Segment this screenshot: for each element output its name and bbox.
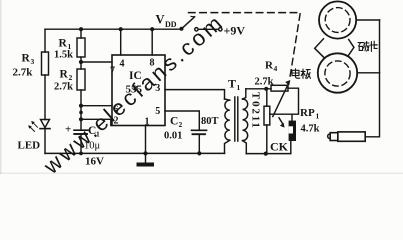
ground bbox=[137, 163, 155, 167]
RP1 wiper arrow bbox=[273, 84, 289, 117]
svg-text:LED: LED bbox=[18, 140, 41, 152]
wire pin 8 bbox=[151, 29, 153, 55]
node A R4 input bbox=[264, 87, 268, 91]
svg-text:RP: RP bbox=[300, 107, 315, 119]
socket CK bbox=[289, 121, 296, 141]
scan artifact left edge bbox=[0, 0, 2, 174]
wire top supply rail bbox=[45, 28, 182, 30]
svg-text:0.01: 0.01 bbox=[164, 131, 182, 142]
svg-text:R: R bbox=[60, 69, 69, 81]
magnetic disc upper bbox=[319, 1, 356, 38]
switch S lever bbox=[182, 17, 195, 29]
label cipian disc char pian bbox=[370, 41, 377, 51]
resistor R3 bbox=[42, 52, 49, 75]
svg-text:80T: 80T bbox=[201, 116, 219, 127]
resistor R2 bbox=[77, 69, 85, 90]
potentiometer RP1 bbox=[264, 106, 270, 125]
label cipian disc char ci bbox=[358, 42, 369, 51]
node pin2 bbox=[79, 117, 83, 121]
magnetic disc lower bbox=[318, 53, 357, 92]
svg-text:5: 5 bbox=[155, 106, 160, 117]
svg-text:4: 4 bbox=[274, 64, 278, 73]
svg-text:1: 1 bbox=[316, 112, 320, 121]
svg-text:R: R bbox=[22, 53, 31, 65]
resistor R1 bbox=[77, 38, 85, 57]
node pin8 top bbox=[150, 27, 154, 31]
svg-text:2.7k: 2.7k bbox=[255, 77, 274, 88]
wire LED to bottom rail bbox=[44, 129, 46, 154]
svg-text:2: 2 bbox=[179, 120, 183, 129]
transformer T1 primary winding 80T bbox=[225, 99, 230, 100]
disc holder right bracket bbox=[348, 40, 354, 57]
disc holder left bracket bbox=[315, 39, 325, 58]
wire switch to battery terminal bbox=[198, 28, 218, 30]
wire C2 to rail bbox=[198, 134, 200, 153]
svg-text:2.7k: 2.7k bbox=[13, 67, 34, 79]
svg-text:2.7k: 2.7k bbox=[54, 82, 73, 93]
wire pin 3 bbox=[165, 90, 225, 99]
svg-text:DD: DD bbox=[165, 20, 177, 29]
node C2 rail bbox=[197, 151, 201, 155]
wire disc lower stub bbox=[357, 72, 379, 74]
svg-text:T0211: T0211 bbox=[250, 92, 262, 130]
node RP1 bottom rail bbox=[264, 152, 268, 156]
svg-text:4: 4 bbox=[120, 59, 125, 70]
svg-text:7: 7 bbox=[110, 66, 115, 77]
phone plug tip bbox=[328, 134, 331, 139]
wire pin 5 bbox=[165, 111, 199, 130]
wire pin 2 bbox=[81, 119, 111, 125]
svg-text:4.7k: 4.7k bbox=[301, 124, 320, 135]
svg-text:3: 3 bbox=[31, 57, 35, 66]
LED bbox=[41, 120, 50, 128]
wire C1 to rail bbox=[80, 134, 82, 153]
svg-text:R: R bbox=[59, 38, 68, 50]
scan artifact bottom edge bbox=[0, 173, 403, 174]
capacitor C2 bbox=[192, 129, 207, 131]
wire right vertical to plug bbox=[365, 20, 379, 137]
wire RP1 top lead bbox=[266, 89, 268, 106]
battery terminal bbox=[219, 28, 222, 31]
node pin4 top bbox=[119, 27, 123, 31]
wire secondary bottom rail bbox=[246, 141, 290, 154]
wire R1-R2 junction bbox=[80, 57, 82, 69]
svg-text:V: V bbox=[156, 13, 165, 27]
svg-text:C: C bbox=[170, 116, 178, 128]
svg-text:1.5k: 1.5k bbox=[54, 50, 73, 61]
label dianji electrode char dian bbox=[292, 69, 300, 78]
svg-text:1: 1 bbox=[237, 83, 241, 92]
wire pin 1 to ground bbox=[145, 126, 147, 163]
node R1-R2 bbox=[79, 60, 83, 64]
wire R2 to C1 bbox=[80, 90, 82, 130]
svg-text:16V: 16V bbox=[85, 156, 104, 168]
capacitor C1 bbox=[74, 129, 88, 131]
switch contact bbox=[195, 28, 198, 31]
switch dashed mechanical link bbox=[189, 13, 301, 80]
wire R1 branch from rail bbox=[80, 29, 82, 38]
wire R3 to LED bbox=[44, 75, 46, 120]
node VDD bbox=[180, 27, 184, 31]
phone plug collar bbox=[330, 133, 338, 141]
wire pin 7 bbox=[81, 61, 112, 63]
svg-text:CK: CK bbox=[270, 140, 289, 154]
wire RP1 bottom lead bbox=[266, 125, 268, 154]
wire bottom ground rail bbox=[45, 152, 225, 154]
transformer T1 core bbox=[235, 97, 238, 141]
node ground rail bbox=[143, 151, 147, 155]
wire disc upper stub bbox=[356, 19, 379, 21]
node C1 rail bbox=[79, 152, 83, 156]
phone plug body bbox=[338, 132, 365, 141]
label dianji electrode char ji bbox=[301, 69, 310, 79]
transformer T1 secondary winding 1120T bbox=[243, 89, 246, 99]
wire left column top bbox=[44, 29, 46, 52]
node R1 top bbox=[79, 27, 83, 31]
node pin6 bbox=[79, 104, 83, 108]
wire pin 6 bbox=[81, 105, 112, 107]
svg-text:1: 1 bbox=[145, 117, 150, 128]
wire R4 right to wiper line bbox=[270, 88, 299, 114]
wire secondary top to R4 bbox=[246, 88, 271, 90]
plug insertion arrow bbox=[279, 118, 283, 124]
op-amp U1 555 IC box bbox=[112, 55, 165, 126]
resistor R4 bbox=[271, 85, 288, 91]
node mid bbox=[79, 111, 83, 115]
wire pin 4 bbox=[120, 29, 122, 55]
svg-text:T: T bbox=[228, 77, 236, 91]
